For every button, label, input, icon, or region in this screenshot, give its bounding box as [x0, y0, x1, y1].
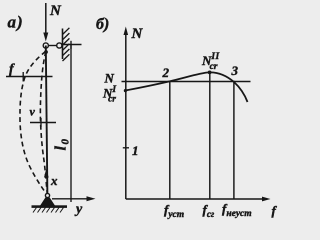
dashed buckled shape inner: [40, 52, 47, 195]
vertical line point 3: [233, 81, 235, 199]
support triangle: [41, 196, 55, 207]
load curve: [125, 72, 248, 102]
svg-text:N: N: [104, 71, 115, 86]
dimension line l0: [70, 45, 72, 203]
N axis: [124, 27, 129, 200]
support pin white core: [45, 193, 49, 197]
wall hinge circle: [57, 43, 62, 48]
y axis: [52, 196, 96, 201]
wall hatching: [63, 28, 70, 61]
v tick: [40, 118, 42, 127]
ground line: [32, 205, 68, 208]
column: [46, 46, 48, 197]
f measurement line: [6, 76, 53, 78]
svg-text:а): а): [8, 13, 24, 32]
svg-text:x: x: [50, 173, 58, 188]
svg-text:1: 1: [132, 143, 139, 158]
f tick: [22, 72, 24, 82]
svg-text:v: v: [30, 105, 36, 119]
dashed start dot: [44, 50, 48, 54]
svg-text:y: y: [74, 202, 83, 217]
tick 1 on N axis: [123, 147, 129, 149]
v measurement line: [30, 122, 56, 124]
top hinge circle: [43, 43, 48, 48]
force N arrow: [43, 3, 48, 42]
wall line: [62, 29, 64, 60]
ground hatching: [33, 208, 64, 213]
vertical line point 2: [169, 81, 171, 199]
svg-text:N: N: [131, 26, 144, 42]
dimension tick top: [70, 41, 72, 49]
svg-text:б): б): [96, 16, 109, 33]
svg-text:3: 3: [231, 63, 239, 78]
vertical line f cr: [209, 73, 211, 200]
f axis: [126, 197, 271, 202]
top reference line: [63, 44, 82, 46]
x axis arrowhead: [44, 169, 49, 178]
svg-text:2: 2: [162, 65, 170, 80]
curve start dot: [124, 89, 127, 92]
svg-text:N: N: [49, 3, 62, 19]
peak dot: [208, 71, 212, 75]
dashed buckled shape outer: [20, 52, 47, 195]
top link bar: [49, 45, 57, 47]
N level line: [122, 81, 251, 83]
